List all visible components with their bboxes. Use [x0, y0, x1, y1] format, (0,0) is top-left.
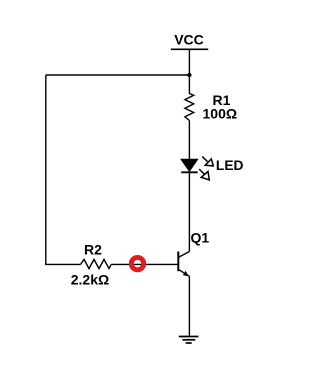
- wire R2 to transistor base: [111, 263, 178, 265]
- svg-text:VCC: VCC: [174, 32, 204, 48]
- node junction dot: [187, 73, 191, 77]
- transistor Q1 base bar: [177, 252, 179, 272]
- node marker red ring: [131, 257, 143, 269]
- svg-text:Q1: Q1: [191, 230, 210, 246]
- power rail VCC bar: [171, 48, 208, 50]
- wire VCC bar to R1 top: [188, 49, 190, 94]
- wire left vertical: [45, 75, 47, 264]
- resistor R2: [81, 259, 112, 268]
- svg-text:R2: R2: [84, 241, 102, 257]
- transistor Q1 collector diagonal: [178, 252, 189, 258]
- LED cathode bar: [181, 171, 198, 173]
- svg-text:LED: LED: [216, 158, 244, 173]
- ground bar 1: [179, 336, 199, 338]
- wire R1 to LED: [188, 121, 190, 160]
- wire LED to collector: [188, 172, 190, 251]
- transistor Q1 emitter diagonal: [178, 269, 189, 276]
- LED light arrow 2: [199, 169, 209, 180]
- wire bottom left to R2: [45, 263, 81, 265]
- ground bar 3: [186, 342, 192, 344]
- resistor R1: [185, 94, 194, 121]
- wire top horizontal: [46, 74, 190, 76]
- transistor Q1 emitter arrow: [183, 271, 189, 277]
- LED D1 anode triangle: [181, 159, 198, 171]
- wire emitter to ground: [188, 276, 190, 336]
- ground bar 2: [182, 339, 195, 341]
- svg-text:2.2kΩ: 2.2kΩ: [71, 272, 109, 288]
- svg-text:100Ω: 100Ω: [203, 106, 238, 122]
- LED light arrow 1: [202, 157, 213, 166]
